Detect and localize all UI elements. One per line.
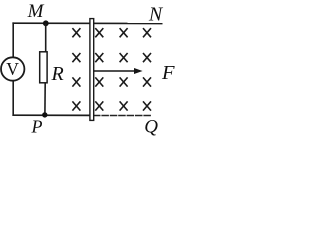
field cross row4 col0 (left of rod) <box>72 101 80 110</box>
field cross row4 col3 <box>143 101 151 110</box>
field cross row3 col2 <box>120 77 128 86</box>
svg-text:P: P <box>31 117 43 137</box>
svg-text:F: F <box>161 62 175 84</box>
force arrow F shaft <box>94 70 136 72</box>
field cross row2 col1 <box>95 53 103 62</box>
field cross row1 col1 <box>95 28 103 37</box>
field cross row4 col2 <box>120 101 128 110</box>
voltmeter V1 circle <box>1 57 24 80</box>
svg-text:N: N <box>148 3 164 25</box>
node P junction dot <box>42 112 47 117</box>
svg-text:Q: Q <box>144 116 158 137</box>
svg-text:M: M <box>27 1 45 22</box>
wire resistor branch upper <box>45 23 47 52</box>
wire left branch upper <box>12 22 14 58</box>
svg-text:V: V <box>6 59 19 79</box>
field cross row2 col2 <box>120 53 128 62</box>
field cross row3 col1 <box>95 77 103 86</box>
node M junction dot <box>43 20 49 26</box>
conducting rod (slider) <box>90 19 94 121</box>
wire resistor branch lower <box>44 83 46 115</box>
field cross row1 col0 (left of rod) <box>72 28 80 37</box>
wire bottom rail right of rod (to Q, slightly broken) <box>93 115 151 117</box>
field cross row1 col3 <box>143 28 151 37</box>
wire bottom rail left (P side) <box>12 114 91 116</box>
field cross row3 col0 (left of rod) <box>72 77 80 86</box>
field cross row1 col2 <box>120 28 128 37</box>
wire left branch lower <box>12 80 14 116</box>
field cross row2 col3 <box>143 53 151 62</box>
resistor R box <box>40 52 47 83</box>
field cross row2 col0 (left of rod) <box>72 53 80 62</box>
field cross row3 col3 <box>143 77 151 86</box>
field cross row4 col1 <box>95 101 103 110</box>
force arrow F head <box>134 68 143 74</box>
wire top rail MN <box>12 22 162 24</box>
svg-text:R: R <box>51 63 64 85</box>
